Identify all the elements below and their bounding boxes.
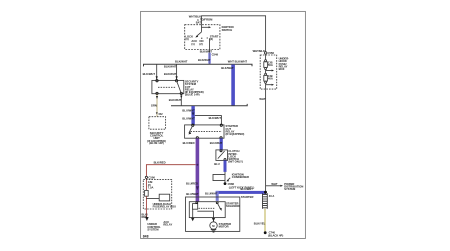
svg-text:(BLACK 4P): (BLACK 4P) (268, 233, 283, 237)
svg-text:40A: 40A (268, 77, 273, 81)
connector dot C586 (224, 182, 227, 185)
fuse C/B 50A (265, 60, 267, 62)
svg-text:WHT: WHT (259, 97, 265, 101)
border frame (141, 11, 306, 238)
svg-text:BLU/WHT: BLU/WHT (186, 192, 199, 196)
fuse C/B 40A (265, 73, 267, 75)
svg-text:C549: C549 (212, 52, 219, 56)
svg-text:BLK/WHT: BLK/WHT (200, 49, 213, 53)
svg-text:50A: 50A (268, 63, 273, 67)
wire BLU thick bus1 to bus2 (231, 65, 235, 106)
relay blade with arrow (189, 126, 193, 133)
svg-text:848: 848 (143, 235, 149, 239)
callout arrow (227, 178, 230, 181)
svg-text:BAT: BAT (196, 20, 202, 24)
svg-text:(2): (2) (199, 42, 202, 46)
clutch interlock switch box (216, 150, 228, 161)
branch arrow to power distribution (266, 185, 281, 187)
ignition switch box (dashed) (185, 25, 220, 50)
svg-text:RED: RED (142, 215, 148, 219)
solenoid contact bar (197, 211, 213, 217)
branch to accessory relay box (146, 198, 159, 200)
solenoid coil (193, 204, 198, 210)
svg-text:BLU/RED: BLU/RED (183, 141, 195, 145)
svg-text:BLU/RED: BLU/RED (186, 182, 198, 186)
wire drop to relay terminal B (176, 64, 178, 79)
svg-text:FUSE/RELAY BOX: FUSE/RELAY BOX (153, 205, 177, 209)
svg-text:SYSTEM: SYSTEM (147, 227, 159, 231)
svg-text:(BLUE 14P): (BLUE 14P) (185, 93, 200, 97)
svg-text:(M/T ONLY): (M/T ONLY) (228, 160, 242, 164)
svg-text:40 A: 40 A (269, 194, 275, 198)
svg-text:(IF EQUIPPED): (IF EQUIPPED) (226, 132, 245, 136)
svg-text:GRN: GRN (151, 104, 157, 108)
svg-text:WHT BLK/WHT: WHT BLK/WHT (228, 60, 248, 64)
wire BLK/WHT relay to bus 2 (180, 95, 182, 106)
solenoid dashed line (199, 207, 215, 209)
svg-text:CONDENSER: CONDENSER (232, 175, 249, 179)
junction dot battery (264, 191, 267, 194)
battery ladder symbol (263, 193, 268, 209)
ignition switch START wire (209, 38, 211, 53)
connector circle on red wire (145, 176, 147, 178)
svg-text:RELAY: RELAY (163, 222, 172, 226)
svg-text:C506: C506 (148, 176, 155, 180)
svg-text:STARTER: STARTER (241, 195, 254, 199)
starter assembly outer box (186, 197, 240, 231)
svg-text:BLU/WHT: BLU/WHT (182, 109, 195, 113)
ignition switch arrow to right (202, 26, 209, 28)
svg-text:BLK/WHT: BLK/WHT (198, 58, 211, 62)
svg-text:BLU/WHT: BLU/WHT (205, 192, 218, 196)
svg-text:(BLUE 14P): (BLUE 14P) (149, 141, 164, 145)
wire BLK/YEL battery to connector (264, 209, 266, 232)
bus line 2 (171, 104, 247, 106)
solenoid terminals (196, 202, 198, 204)
svg-text:SYSTEM: SYSTEM (284, 187, 296, 191)
solenoid ground arrow (191, 218, 195, 222)
solenoid blade (217, 203, 220, 209)
svg-text:BLK/WHT: BLK/WHT (221, 66, 234, 70)
svg-text:(3): (3) (210, 37, 213, 41)
fuse 15 (145, 190, 149, 196)
connector C549 (blue bar) (208, 53, 211, 64)
bus line 1 BLK/WHT (144, 64, 253, 66)
branch wire to relay terminal (195, 116, 222, 125)
ignition switch internal feed (201, 25, 203, 32)
wire BLU bus2 to starter cut relay (191, 106, 194, 125)
svg-text:BLK/WHT: BLK/WHT (175, 60, 188, 64)
svg-text:SOLENOID: SOLENOID (226, 204, 240, 208)
svg-text:152: 152 (158, 112, 163, 116)
wire WHT fuse box down right side (265, 89, 267, 191)
small relay box (159, 194, 170, 201)
svg-text:(0): (0) (185, 37, 188, 41)
starter solenoid inner box (189, 202, 225, 218)
svg-text:BLK/WHT: BLK/WHT (209, 116, 222, 120)
relay contact dashed line (158, 86, 176, 88)
svg-text:BLK/WHT: BLK/WHT (164, 72, 177, 76)
svg-text:BLK/WHT: BLK/WHT (143, 72, 156, 76)
svg-text:WHT: WHT (271, 182, 277, 186)
svg-text:7.5A: 7.5A (148, 185, 154, 189)
ignition switch blade (196, 32, 201, 37)
svg-text:BLK/WHT: BLK/WHT (169, 98, 182, 102)
svg-text:BLU/WHT: BLU/WHT (241, 187, 254, 191)
relay terminals (156, 80, 158, 82)
svg-text:BOX: BOX (279, 67, 285, 71)
starter motor (210, 222, 217, 229)
security control unit box (dashed) (149, 117, 166, 130)
wire BLU/WHT thick horizontal starter to battery junction (216, 191, 266, 194)
svg-text:M: M (212, 224, 215, 228)
wire GRN relay to security control unit (156, 95, 158, 117)
svg-text:(1): (1) (191, 42, 194, 46)
svg-text:C558: C558 (268, 51, 275, 55)
svg-text:MOTOR: MOTOR (219, 225, 229, 229)
svg-text:BLK/WHT: BLK/WHT (164, 65, 177, 69)
svg-text:C586: C586 (228, 182, 235, 186)
under-hood fuse box (dashed) (264, 52, 266, 54)
wire PUR starter cut relay to starter solenoid (196, 138, 200, 202)
ground symbol (211, 229, 216, 232)
wire WHT/BLK ignition switch to under-hood fuse box (202, 16, 266, 52)
wire BLK/RED branch to under-dash fuse box (146, 165, 195, 177)
starter cut relay box (185, 125, 224, 138)
exit arrow under-dash box (145, 217, 149, 221)
svg-text:BLU/WHT: BLU/WHT (210, 141, 223, 145)
svg-text:BLK/YEL: BLK/YEL (254, 222, 266, 226)
svg-text:BLU/WHT: BLU/WHT (182, 116, 195, 120)
svg-text:BLU: BLU (214, 162, 220, 166)
relay blade (177, 82, 181, 93)
wire drop to relay terminal A (156, 64, 158, 79)
security system cut relay box (152, 80, 184, 93)
connector marks C152 (156, 112, 158, 114)
svg-text:WHT/BLK: WHT/BLK (253, 49, 265, 53)
wire BLU below clutch switch (224, 160, 227, 172)
terminal marks (201, 37, 208, 39)
svg-text:SWITCH: SWITCH (222, 28, 233, 32)
connector loop (213, 174, 225, 180)
wire BLU/WHT relay to clutch interlock switch (220, 138, 223, 150)
connector dot C740 (264, 231, 267, 234)
under-dash fuse box (dashed) (143, 179, 171, 209)
svg-text:BLK/RED: BLK/RED (154, 161, 166, 165)
